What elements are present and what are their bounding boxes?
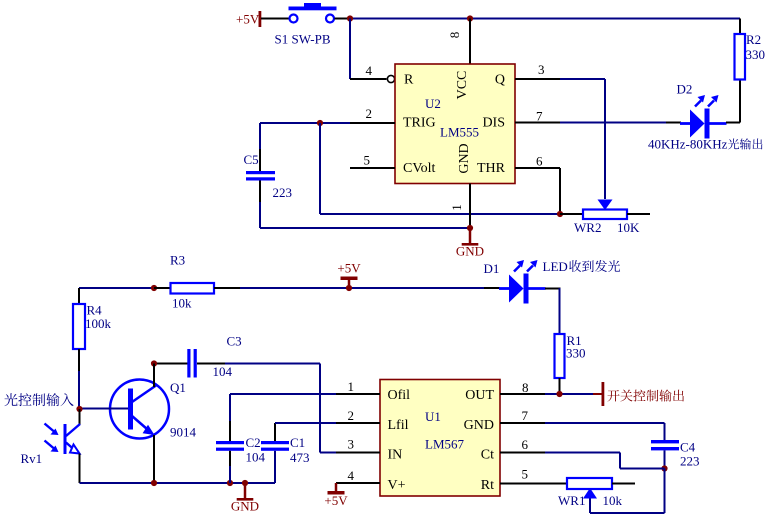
svg-text:R3: R3 bbox=[170, 253, 185, 268]
svg-text:7: 7 bbox=[522, 408, 529, 423]
svg-text:OUT: OUT bbox=[465, 388, 494, 403]
junction bbox=[346, 285, 352, 291]
wire C4 junction to WR1 wiper bbox=[664, 469, 666, 514]
junction bbox=[151, 480, 157, 486]
junction bbox=[661, 465, 667, 471]
wire bbox=[664, 423, 666, 441]
power +5V (U1 pin4) bbox=[324, 483, 348, 508]
svg-text:LM555: LM555 bbox=[440, 125, 479, 140]
svg-text:10k: 10k bbox=[172, 296, 192, 311]
U2 pin 8 VCC bbox=[447, 19, 470, 65]
svg-text:Ofil: Ofil bbox=[388, 388, 411, 403]
svg-text:U1: U1 bbox=[425, 409, 441, 424]
power port +5V (top left) bbox=[236, 11, 261, 27]
wire bbox=[352, 287, 486, 289]
svg-text:+5V: +5V bbox=[324, 493, 348, 508]
wire bbox=[319, 123, 321, 214]
wire bbox=[484, 287, 500, 289]
svg-text:5: 5 bbox=[522, 467, 529, 482]
svg-text:104: 104 bbox=[246, 450, 266, 465]
ground GND (top circuit) bbox=[456, 228, 484, 259]
wire bbox=[666, 122, 681, 124]
svg-text:GND: GND bbox=[456, 244, 484, 259]
wire bbox=[619, 453, 621, 469]
output port switch control output bbox=[593, 393, 602, 395]
svg-text:223: 223 bbox=[273, 185, 293, 200]
transistor Q1 9014 NPN bbox=[80, 364, 197, 484]
U2 pin 1 GND wire bbox=[469, 184, 471, 229]
svg-text:3: 3 bbox=[538, 62, 545, 77]
svg-text:330: 330 bbox=[566, 346, 586, 361]
svg-text:10k: 10k bbox=[603, 493, 623, 508]
potentiometer WR1 10k bbox=[500, 478, 635, 508]
wire +5V top rail bbox=[350, 18, 740, 20]
svg-text:6: 6 bbox=[536, 154, 543, 169]
svg-text:330: 330 bbox=[746, 47, 766, 62]
svg-text:GND: GND bbox=[231, 499, 259, 514]
wire C2 to U1 pin 1 bbox=[230, 393, 338, 395]
svg-text:8: 8 bbox=[447, 32, 462, 39]
svg-text:9014: 9014 bbox=[170, 425, 197, 440]
wire C1 to U1 pin 2 bbox=[275, 422, 338, 424]
wire bbox=[349, 19, 351, 80]
potentiometer WR2 10K bbox=[560, 200, 650, 236]
junction bbox=[227, 480, 233, 486]
svg-text:U2: U2 bbox=[425, 96, 441, 111]
svg-text:+5V: +5V bbox=[236, 12, 260, 27]
svg-text:Q: Q bbox=[495, 73, 505, 88]
wire ground rail bbox=[80, 482, 276, 484]
wire bbox=[261, 18, 289, 20]
svg-text:CVolt: CVolt bbox=[403, 161, 436, 176]
wire bbox=[726, 122, 740, 124]
svg-text:2: 2 bbox=[348, 408, 355, 423]
svg-text:104: 104 bbox=[213, 364, 233, 379]
pushbutton S1 SW-PB bbox=[275, 3, 337, 47]
svg-text:IN: IN bbox=[388, 448, 403, 463]
svg-text:7: 7 bbox=[536, 109, 543, 124]
junction node TRIG/C5 bbox=[317, 120, 323, 126]
U2 pin 4 R (reset) with bubble bbox=[350, 63, 395, 83]
IC U1 LM567 body bbox=[380, 380, 500, 497]
svg-text:C1: C1 bbox=[290, 435, 305, 450]
svg-text:D1: D1 bbox=[484, 261, 500, 276]
capacitor C2 104 bbox=[216, 394, 266, 483]
LED D1 bbox=[499, 260, 546, 304]
junction bbox=[556, 391, 562, 397]
svg-text:D2: D2 bbox=[677, 82, 693, 97]
U1 pin 6 Ct wire bbox=[500, 452, 547, 454]
+5V rail (bottom circuit) bbox=[79, 287, 352, 289]
svg-text:100k: 100k bbox=[85, 316, 112, 331]
junction bbox=[557, 211, 563, 217]
capacitor C4 223 bbox=[651, 440, 700, 469]
svg-text:6: 6 bbox=[522, 437, 529, 452]
svg-text:VCC: VCC bbox=[455, 71, 470, 100]
U1 pin 8 OUT wire bbox=[500, 393, 547, 395]
svg-text:8: 8 bbox=[522, 380, 529, 395]
U2 pin 2 TRIG wire bbox=[260, 122, 352, 124]
svg-text:V+: V+ bbox=[388, 478, 406, 493]
svg-text:+5V: +5V bbox=[337, 261, 361, 276]
junction bbox=[242, 480, 248, 486]
capacitor C1 473 bbox=[261, 423, 310, 483]
U1 pin 7 GND wire bbox=[500, 422, 547, 424]
label light control input bbox=[4, 393, 17, 406]
wire to WR2 wiper bbox=[604, 79, 606, 199]
svg-text:3: 3 bbox=[348, 437, 355, 452]
svg-text:DIS: DIS bbox=[482, 116, 505, 131]
resistor R3 10k bbox=[154, 253, 240, 311]
junction node collector/C3 bbox=[151, 360, 157, 366]
U1 left pin stubs and numbers bbox=[336, 393, 380, 395]
svg-text:GND: GND bbox=[457, 143, 472, 173]
ground GND (bottom circuit) bbox=[231, 483, 259, 514]
svg-text:223: 223 bbox=[680, 454, 700, 469]
svg-text:S1 SW-PB: S1 SW-PB bbox=[275, 32, 331, 47]
U2 pin 3 Q wire bbox=[515, 78, 562, 80]
svg-text:C4: C4 bbox=[680, 440, 696, 455]
svg-text:THR: THR bbox=[477, 161, 506, 176]
junction node base bbox=[76, 406, 82, 412]
wire bbox=[739, 80, 741, 123]
svg-text:5: 5 bbox=[364, 153, 371, 168]
phototransistor Rv1 bbox=[21, 409, 81, 483]
svg-text:Ct: Ct bbox=[481, 448, 494, 463]
svg-text:4: 4 bbox=[348, 468, 355, 483]
svg-text:Lfil: Lfil bbox=[388, 418, 409, 433]
svg-text:1: 1 bbox=[449, 204, 464, 211]
resistor R2 330 bbox=[735, 19, 766, 80]
svg-text:Rv1: Rv1 bbox=[21, 451, 43, 466]
svg-text:R: R bbox=[404, 73, 414, 88]
svg-text:C3: C3 bbox=[227, 334, 242, 349]
wire bbox=[545, 288, 561, 290]
LED D2 bbox=[680, 95, 727, 139]
svg-text:WR1: WR1 bbox=[558, 493, 585, 508]
svg-text:LED: LED bbox=[543, 259, 568, 274]
svg-text:Q1: Q1 bbox=[170, 380, 186, 395]
svg-text:10K: 10K bbox=[617, 220, 640, 235]
wire bbox=[260, 227, 470, 229]
svg-text:R2: R2 bbox=[746, 32, 761, 47]
svg-text:40KHz-80KHz: 40KHz-80KHz bbox=[648, 137, 728, 152]
U2 pin 6 THR wire bbox=[515, 167, 560, 169]
svg-text:WR2: WR2 bbox=[574, 220, 601, 235]
wire C3 to U1 pin 3 bbox=[319, 364, 321, 453]
resistor R4 100k bbox=[73, 288, 112, 409]
junction bbox=[467, 15, 473, 21]
junction bbox=[347, 15, 353, 21]
svg-text:473: 473 bbox=[290, 450, 310, 465]
junction bbox=[151, 285, 157, 291]
wire bbox=[620, 468, 665, 470]
power +5V (middle) bbox=[337, 261, 361, 289]
svg-text:Rt: Rt bbox=[481, 478, 494, 493]
svg-text:4: 4 bbox=[366, 63, 373, 78]
capacitor C5 223 bbox=[244, 123, 293, 228]
svg-text:LM567: LM567 bbox=[425, 437, 465, 452]
svg-text:2: 2 bbox=[366, 106, 373, 121]
svg-text:TRIG: TRIG bbox=[403, 116, 436, 131]
svg-text:1: 1 bbox=[348, 379, 355, 394]
resistor R1 330 bbox=[555, 288, 586, 394]
op-amp U2 LM555 timer IC body bbox=[395, 64, 515, 184]
U2 pin 5 CVolt stub bbox=[350, 167, 395, 169]
capacitor C3 104 bbox=[154, 334, 320, 380]
svg-text:GND: GND bbox=[464, 418, 494, 433]
wire bbox=[320, 213, 560, 215]
svg-text:C5: C5 bbox=[244, 152, 259, 167]
svg-text:C2: C2 bbox=[246, 435, 261, 450]
junction bbox=[467, 225, 473, 231]
U2 pin 7 DIS wire bbox=[515, 122, 562, 124]
wire bbox=[335, 18, 351, 20]
